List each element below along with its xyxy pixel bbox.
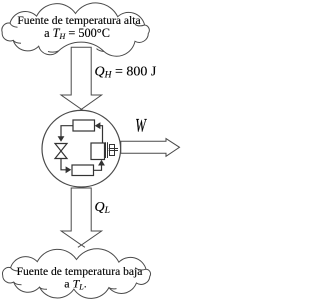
piston box xyxy=(110,145,115,156)
condenser (top rectangle) xyxy=(73,120,95,131)
svg-text:W: W xyxy=(135,116,147,136)
work output arrow W xyxy=(121,139,180,157)
hot reservoir cloud xyxy=(2,3,149,56)
svg-text:a TH = 500°C: a TH = 500°C xyxy=(44,26,110,41)
heat input arrow QH xyxy=(61,47,102,109)
compressor cylinder xyxy=(91,143,105,160)
heat rejection arrow QL xyxy=(61,188,101,245)
wire valve to evaporator with right arrow xyxy=(61,159,70,170)
wire compressor to condenser with left arrow xyxy=(97,126,103,143)
cloud interior curls (top) xyxy=(10,23,145,52)
piston bars xyxy=(106,142,108,158)
svg-text:Fuente de temperatura baja: Fuente de temperatura baja xyxy=(17,265,143,278)
wire evaporator to compressor with up arrow xyxy=(94,162,102,170)
svg-text:QH = 800 J: QH = 800 J xyxy=(95,64,157,80)
piston fins xyxy=(109,149,118,151)
expansion valve xyxy=(55,144,67,159)
cloud interior curls (bottom) xyxy=(11,268,146,290)
heat engine circle xyxy=(42,110,121,187)
cold reservoir cloud xyxy=(3,249,151,299)
wire top-left with down arrow to valve xyxy=(61,126,73,140)
evaporator (bottom rectangle) xyxy=(72,165,94,176)
svg-text:a TL.: a TL. xyxy=(64,276,86,291)
